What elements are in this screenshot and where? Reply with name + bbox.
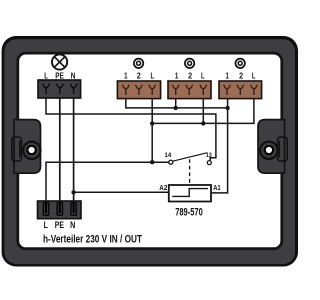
connector X3 (brown) xyxy=(219,81,262,99)
label L PE N (top lamp output) xyxy=(44,71,75,81)
svg-text:1: 1 xyxy=(124,71,128,81)
screw symbol above connector X2 xyxy=(185,59,194,68)
relay switch contacts xyxy=(169,153,212,165)
wire input L to relay contact 14 xyxy=(46,162,169,213)
mounting ear right xyxy=(258,120,287,174)
wire N (top block to bottom block) xyxy=(73,91,75,213)
screw symbol above connector X1 xyxy=(134,59,143,68)
wire PE (top block to bottom block) xyxy=(59,91,61,213)
wire X2-1 to bus 1 xyxy=(175,93,177,108)
svg-text:L: L xyxy=(44,71,48,81)
label 1 2 L (connector X2) xyxy=(175,71,205,81)
housing inner panel xyxy=(18,53,282,249)
wire X3-1 to coil A1 xyxy=(211,93,228,193)
junction X3-1 / bus 1 xyxy=(225,106,229,110)
label L PE N (bottom input) xyxy=(44,220,76,231)
wire coil A2 to N xyxy=(74,191,169,193)
junction X2-L / L bus xyxy=(201,121,205,125)
svg-text:14: 14 xyxy=(165,152,172,159)
svg-text:1: 1 xyxy=(175,71,179,81)
svg-text:L: L xyxy=(252,71,256,81)
svg-text:h-Verteiler 230 V IN / OUT: h-Verteiler 230 V IN / OUT xyxy=(43,233,142,245)
svg-text:A2: A2 xyxy=(159,185,167,192)
svg-text:2: 2 xyxy=(137,71,141,81)
label 1 2 L (connector X1) xyxy=(124,71,154,81)
housing body xyxy=(4,39,295,264)
svg-text:N: N xyxy=(70,220,75,231)
terminal block lamp output (gray) xyxy=(38,80,81,98)
svg-text:13: 13 xyxy=(206,152,212,159)
junction X2-1 / bus 1 xyxy=(174,106,178,110)
svg-text:A1: A1 xyxy=(213,185,221,192)
dashed actuator link xyxy=(189,159,191,185)
lamp symbol E1 xyxy=(52,54,67,69)
svg-text:L: L xyxy=(151,71,155,81)
svg-text:L: L xyxy=(201,71,205,81)
svg-text:N: N xyxy=(71,71,76,81)
svg-text:PE: PE xyxy=(55,71,64,81)
svg-text:789-570: 789-570 xyxy=(175,207,203,219)
wire X1-L to node 14 xyxy=(151,93,153,163)
relay coil K1 xyxy=(169,185,211,202)
mounting ear left xyxy=(12,120,41,174)
junction X1-L / L bus xyxy=(150,121,154,125)
wire lamp L to relay contact 13 xyxy=(46,91,216,160)
svg-text:L: L xyxy=(44,220,48,231)
junction N / coil A2 wire xyxy=(71,190,75,194)
connector X1 (brown) xyxy=(117,81,160,99)
screw symbol above connector X3 xyxy=(236,59,245,68)
housing outer shell xyxy=(2,36,298,267)
svg-text:2: 2 xyxy=(239,71,243,81)
svg-text:PE: PE xyxy=(55,220,64,231)
wire X1-1 to bus 1 xyxy=(126,93,228,108)
svg-text:2: 2 xyxy=(188,71,192,81)
connector X2 (brown) xyxy=(168,81,211,99)
terminal block mains input (gray, bottom) xyxy=(38,201,82,219)
label 1 2 L (connector X3) xyxy=(226,71,256,81)
wire X3-L to L bus xyxy=(152,93,254,124)
svg-text:1: 1 xyxy=(226,71,230,81)
wire X2-L to L bus xyxy=(202,93,204,124)
junction L bus / contact 14 wire xyxy=(150,160,154,164)
